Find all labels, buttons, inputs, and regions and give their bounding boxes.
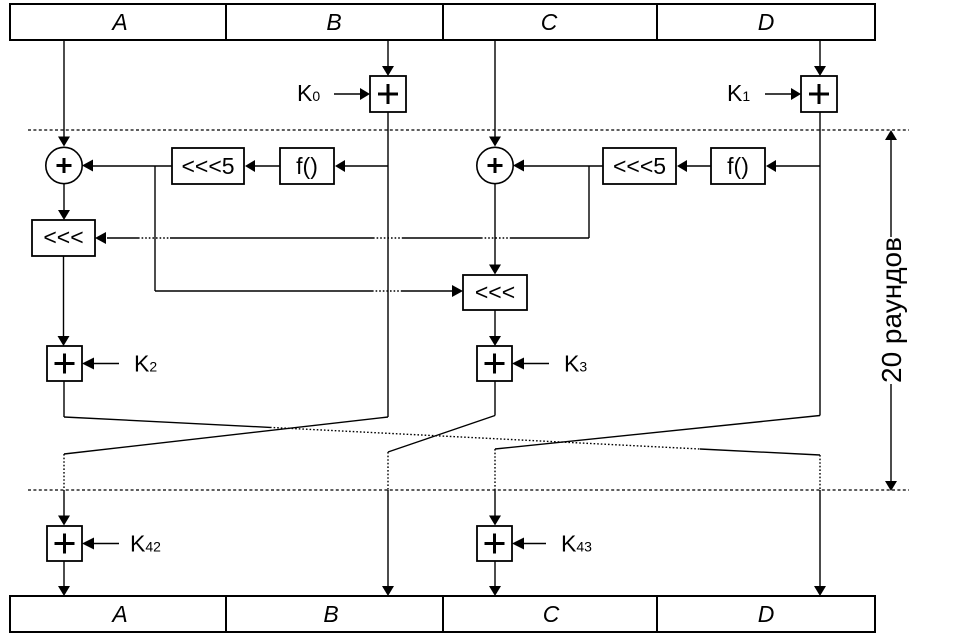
svg-text:<<<: <<< <box>475 279 515 305</box>
svg-text:D: D <box>758 9 775 35</box>
svg-text:20 раундов: 20 раундов <box>876 237 907 383</box>
svg-text:f(): f() <box>727 153 749 179</box>
svg-text:C: C <box>541 9 558 35</box>
svg-text:B: B <box>326 9 341 35</box>
svg-text:B: B <box>323 601 338 627</box>
svg-text:C: C <box>543 601 560 627</box>
svg-text:<<<5: <<<5 <box>181 153 234 179</box>
svg-text:A: A <box>110 9 127 35</box>
svg-text:<<<: <<< <box>43 224 83 250</box>
svg-text:f(): f() <box>296 153 318 179</box>
svg-text:D: D <box>758 601 775 627</box>
svg-text:<<<5: <<<5 <box>613 153 666 179</box>
svg-text:A: A <box>110 601 127 627</box>
